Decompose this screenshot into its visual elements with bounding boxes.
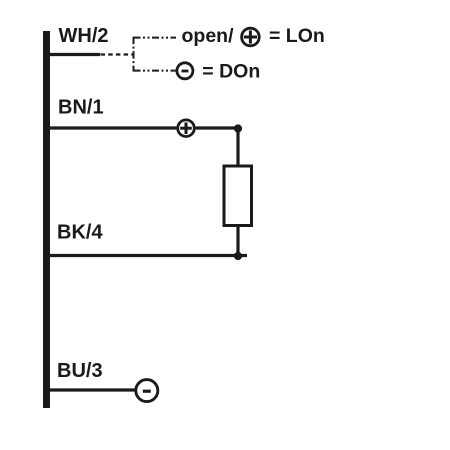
wire WH/2 dashed extension: [101, 53, 134, 55]
wire BK/4: [49, 254, 247, 257]
resistor load: [224, 166, 252, 226]
minus symbol circle on BU/3: [136, 380, 158, 402]
wire BU/3: [49, 388, 135, 391]
svg-text:BK/4: BK/4: [57, 222, 103, 244]
svg-text:= DOn: = DOn: [202, 61, 260, 83]
wire resistor to node bottom: [236, 226, 239, 257]
wire BN/1: [49, 126, 176, 129]
svg-text:open/: open/: [182, 25, 235, 47]
svg-text:BU/3: BU/3: [57, 360, 103, 382]
wire WH/2 solid: [49, 53, 100, 56]
branch to open/+ (dash-dot-dot): [134, 37, 177, 39]
wire from node to resistor: [236, 129, 239, 167]
bracket vertical dash-dot: [133, 37, 135, 72]
branch to minus (dash-dot-dot): [134, 70, 176, 72]
junction node bottom: [234, 252, 242, 260]
sensor body bar: [43, 31, 50, 408]
plus symbol circle U+ (open/+): [242, 28, 260, 46]
minus symbol circle (DOn): [177, 63, 193, 79]
svg-text:= LOn: = LOn: [269, 25, 325, 47]
svg-text:BN/1: BN/1: [58, 96, 104, 118]
plus symbol circle on BN/1: [178, 120, 195, 137]
svg-text:WH/2: WH/2: [59, 25, 109, 47]
junction node top: [234, 124, 242, 132]
